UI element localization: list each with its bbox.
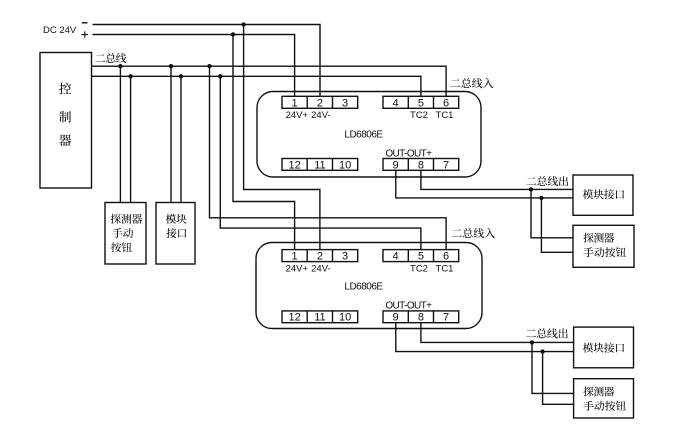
wire OUT+ branch to detector button (right top) bbox=[531, 189, 573, 237]
svg-text:OUT-OUT+: OUT-OUT+ bbox=[385, 300, 432, 311]
net label 二总线出 (bus out) U2 bbox=[526, 328, 568, 338]
net label 二总线入 (bus in) U2 bbox=[452, 228, 495, 238]
junction bus B to module interface bbox=[179, 74, 183, 78]
junction bus A to detector button bbox=[118, 64, 122, 68]
wire bus B down to module interface box bbox=[180, 76, 182, 202]
junction bus B to detector button bbox=[128, 74, 132, 78]
svg-text:6: 6 bbox=[443, 251, 449, 263]
svg-text:8: 8 bbox=[418, 159, 424, 171]
wire U1 pin 8 (OUT+) to module interface (right top) bbox=[421, 170, 573, 189]
text 探测器 bbox=[111, 214, 143, 224]
svg-text:LD6806E: LD6806E bbox=[344, 129, 383, 140]
module interface box 模块接口 (right top) bbox=[573, 175, 633, 215]
polarity mark plus (DC+ rail) bbox=[82, 31, 89, 37]
terminal dividers U1 pins 9-7 bbox=[408, 159, 433, 171]
svg-text:9: 9 bbox=[393, 312, 399, 324]
svg-text:TC2: TC2 bbox=[410, 110, 428, 121]
junction DC- branch bbox=[241, 22, 245, 26]
junction bus A branch to U2 bbox=[207, 64, 211, 68]
text 探测器 (right top) bbox=[583, 233, 614, 243]
svg-text:3: 3 bbox=[342, 97, 348, 109]
svg-text:11: 11 bbox=[314, 312, 325, 324]
op-module U1 LD6806E outline bbox=[257, 92, 481, 178]
svg-text:2: 2 bbox=[317, 251, 323, 263]
svg-text:7: 7 bbox=[443, 312, 449, 324]
wire U1 pin 9 (OUT-) to module interface (right top) bbox=[396, 170, 573, 198]
junction OUT+ branch (right bottom) bbox=[530, 340, 534, 344]
junction OUT- branch (right bottom) bbox=[540, 349, 544, 353]
svg-text:24V+: 24V+ bbox=[286, 110, 309, 121]
module interface box 模块接口 (right bottom) bbox=[574, 327, 634, 368]
terminal block U2 pins 9-7 bbox=[383, 311, 459, 323]
svg-text:8: 8 bbox=[418, 312, 424, 324]
wire bus B down to detector button box bbox=[130, 76, 132, 202]
terminal dividers U1 pins 12-10 bbox=[307, 159, 332, 171]
terminal dividers U1 pins 1-3 bbox=[307, 96, 332, 108]
text 模块接口 (right top) bbox=[583, 189, 624, 199]
terminal block U2 pins 12-10 bbox=[282, 311, 358, 323]
wire OUT- branch to detector button (right top) bbox=[541, 198, 573, 252]
terminal block U1 pins 9-7 bbox=[383, 159, 459, 171]
text 手动 bbox=[112, 228, 133, 238]
wire bus B branch to U2 pin 5 (TC2) bbox=[220, 76, 421, 249]
controller text 控 bbox=[59, 83, 71, 95]
svg-text:24V-: 24V- bbox=[311, 110, 331, 121]
terminal block U1 pins 4-6 bbox=[383, 96, 459, 108]
svg-text:1: 1 bbox=[292, 97, 298, 109]
svg-text:10: 10 bbox=[339, 312, 351, 324]
detector manual button box 探测器手动按钮 (right top) bbox=[573, 225, 634, 267]
terminal block U2 pins 4-6 bbox=[383, 250, 459, 262]
net label 二总线 (two-wire bus) bbox=[95, 53, 126, 63]
svg-text:6: 6 bbox=[443, 97, 449, 109]
wire OUT+ branch to detector button (right bottom) bbox=[532, 342, 574, 393]
junction DC+ branch bbox=[231, 32, 235, 36]
controller text 制 bbox=[59, 111, 71, 123]
wire bus A down to module interface box bbox=[170, 66, 172, 202]
svg-text:TC1: TC1 bbox=[436, 263, 454, 274]
svg-text:5: 5 bbox=[418, 97, 424, 109]
svg-text:1: 1 bbox=[292, 251, 298, 263]
terminal dividers U2 pins 12-10 bbox=[307, 311, 332, 323]
terminal dividers U1 pins 4-6 bbox=[408, 96, 433, 108]
junction OUT- branch (right top) bbox=[539, 196, 543, 200]
wire DC+ rail to U1 pin 1 (24V+) bbox=[93, 35, 295, 97]
polarity mark minus (DC- rail) bbox=[82, 22, 88, 24]
junction OUT+ branch (right top) bbox=[529, 187, 533, 191]
wire DC+ branch to U2 pin 1 (24V+) bbox=[233, 35, 295, 250]
text 手动按钮 (right top) bbox=[583, 247, 626, 257]
net label 二总线出 (bus out) U1 bbox=[526, 176, 568, 186]
op-module U2 LD6806E outline bbox=[256, 243, 482, 329]
svg-text:12: 12 bbox=[288, 312, 300, 324]
wire DC- branch to U2 pin 2 (24V-) bbox=[244, 25, 320, 250]
svg-text:12: 12 bbox=[288, 159, 300, 171]
text 模块接口 (right bottom) bbox=[583, 343, 624, 353]
terminal block U2 pins 1-3 bbox=[282, 250, 358, 262]
terminal dividers U2 pins 1-3 bbox=[307, 250, 332, 262]
detector manual button box 探测器手动按钮 (right bottom) bbox=[574, 379, 634, 418]
text 手动按钮 (right bottom) bbox=[583, 401, 626, 411]
svg-text:LD6806E: LD6806E bbox=[344, 281, 383, 292]
terminal dividers U2 pins 4-6 bbox=[408, 250, 433, 262]
junction bus A to module interface bbox=[169, 64, 173, 68]
text 模块 bbox=[166, 214, 187, 224]
controller box 控制器 bbox=[40, 53, 92, 189]
text 探测器 (right bottom) bbox=[583, 386, 614, 396]
wire bus A down to detector button box bbox=[119, 66, 121, 202]
module interface box 模块接口 (left) bbox=[156, 203, 195, 265]
svg-text:24V+: 24V+ bbox=[286, 263, 309, 274]
svg-text:4: 4 bbox=[393, 97, 399, 109]
svg-text:2: 2 bbox=[317, 97, 323, 109]
svg-text:TC2: TC2 bbox=[410, 263, 428, 274]
text 接口 bbox=[166, 228, 186, 238]
wire bus line B to U1 pin 5 (TC2) bbox=[92, 76, 421, 96]
controller text 器 bbox=[59, 134, 71, 146]
net label 二总线入 (bus in) U1 bbox=[450, 78, 493, 88]
detector manual button box 探测器手动按钮 (left) bbox=[105, 203, 146, 265]
svg-text:11: 11 bbox=[314, 159, 325, 171]
svg-text:DC 24V: DC 24V bbox=[43, 25, 77, 36]
svg-text:4: 4 bbox=[393, 251, 399, 263]
wire U2 pin 9 (OUT-) to module interface (right bottom) bbox=[396, 323, 574, 352]
junction bus B branch to U2 bbox=[218, 74, 222, 78]
svg-text:24V-: 24V- bbox=[311, 263, 331, 274]
wire bus line A to U1 pin 6 (TC1) bbox=[92, 66, 447, 96]
svg-text:5: 5 bbox=[418, 251, 424, 263]
wire OUT- branch to detector button (right bottom) bbox=[543, 352, 574, 405]
wire U2 pin 8 (OUT+) to module interface (right bottom) bbox=[421, 323, 574, 343]
text 按钮 bbox=[111, 242, 132, 252]
terminal block U1 pins 1-3 bbox=[282, 96, 358, 108]
svg-text:3: 3 bbox=[342, 251, 348, 263]
svg-text:10: 10 bbox=[339, 159, 351, 171]
wire bus A branch to U2 pin 6 (TC1) bbox=[210, 66, 447, 249]
terminal dividers U2 pins 9-7 bbox=[408, 311, 433, 323]
terminal block U1 pins 12-10 bbox=[282, 159, 358, 171]
svg-text:7: 7 bbox=[443, 159, 449, 171]
wire DC- rail to U1 pin 2 (24V-) bbox=[93, 25, 321, 97]
svg-text:9: 9 bbox=[393, 159, 399, 171]
svg-text:TC1: TC1 bbox=[436, 110, 454, 121]
